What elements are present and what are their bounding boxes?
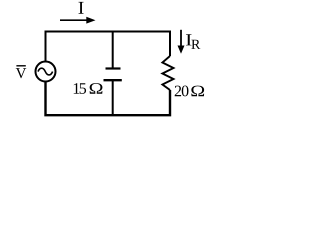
label I subscript R xyxy=(186,34,200,49)
wire middle branch bottom xyxy=(112,80,114,116)
wire middle branch top xyxy=(112,31,114,68)
capacitor C1 bottom plate xyxy=(104,79,122,81)
label 20 ohm xyxy=(175,86,204,97)
label 15 ohm xyxy=(74,83,103,94)
resistor R1 zigzag xyxy=(162,56,173,90)
label I xyxy=(79,2,84,14)
label V with overline xyxy=(16,66,26,78)
current arrow IR xyxy=(178,30,185,54)
capacitor C1 top plate xyxy=(106,67,121,69)
source V1 AC sine source xyxy=(36,62,56,82)
current arrow I xyxy=(60,17,96,24)
wire top: left branch up, across, down to resistor xyxy=(46,32,171,62)
wire bottom: left branch down, across, up to resistor xyxy=(46,82,171,115)
